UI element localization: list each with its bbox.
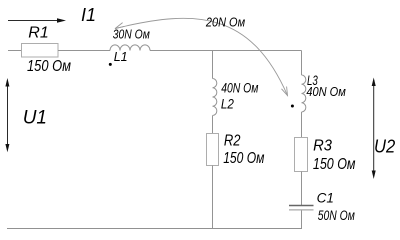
svg-text:L2: L2 — [221, 96, 234, 111]
svg-text:R3: R3 — [313, 138, 332, 155]
svg-text:U2: U2 — [374, 137, 395, 157]
arrow I1 — [8, 18, 66, 23]
svg-text:L1: L1 — [114, 50, 128, 64]
arrow U1 — [5, 78, 9, 152]
inductor L3 — [301, 75, 305, 112]
svg-text:40N Ом: 40N Ом — [221, 80, 258, 95]
inductor L1 — [110, 45, 150, 51]
svg-text:40N Ом: 40N Ом — [306, 84, 345, 99]
resistor R3 — [295, 138, 308, 172]
dot L1 — [109, 63, 112, 66]
wire — [58, 50, 110, 52]
wire — [212, 116, 214, 134]
wire — [301, 210, 303, 228]
resistor R2 — [207, 134, 219, 166]
wire — [212, 51, 214, 79]
svg-text:50N Ом: 50N Ом — [318, 208, 355, 223]
svg-text:150 Ом: 150 Ом — [27, 58, 71, 75]
wire — [212, 166, 214, 229]
svg-text:150 Ом: 150 Ом — [313, 156, 356, 173]
svg-text:I1: I1 — [81, 5, 96, 25]
wire — [7, 228, 302, 230]
wire — [301, 112, 303, 138]
svg-text:R1: R1 — [28, 25, 48, 42]
svg-text:R2: R2 — [224, 133, 241, 150]
mutual coupling arrow 20N Ом — [115, 18, 288, 95]
wire — [150, 50, 302, 52]
svg-text:150 Ом: 150 Ом — [223, 150, 264, 167]
wire — [8, 50, 22, 52]
svg-text:U1: U1 — [23, 108, 47, 129]
inductor L2 — [213, 79, 217, 116]
svg-text:20N Ом: 20N Ом — [205, 15, 245, 30]
arrow U2 — [372, 78, 376, 180]
svg-text:C1: C1 — [317, 191, 334, 206]
wire — [301, 172, 303, 206]
svg-text:30N Ом: 30N Ом — [113, 27, 150, 42]
capacitor C1 — [289, 206, 314, 210]
dot L3 — [291, 105, 294, 108]
wire — [301, 51, 303, 76]
resistor R1 — [22, 44, 59, 58]
